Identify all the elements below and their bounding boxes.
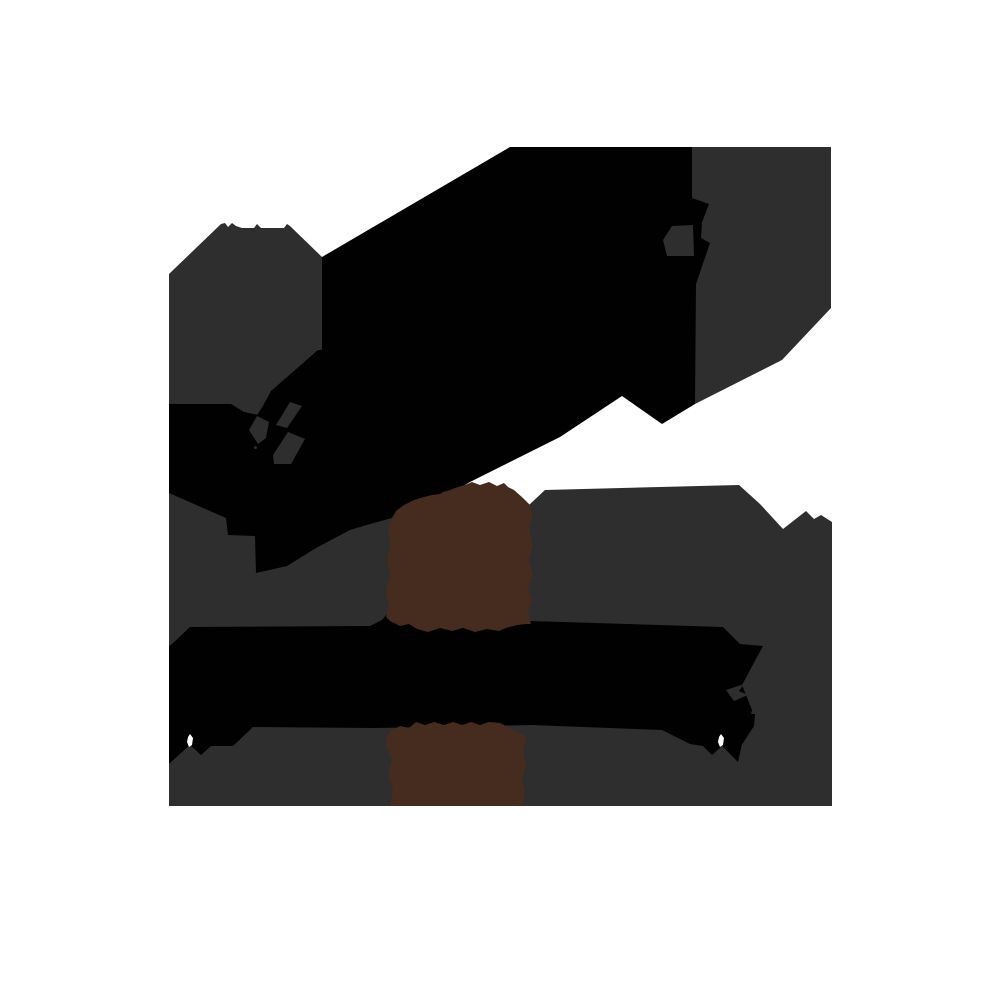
top-right gray face of beam (692, 147, 831, 404)
gray octagon (upper-left) (169, 223, 322, 415)
white speck left (187, 734, 193, 747)
bottom slab (gray body) (169, 485, 832, 806)
checker cell D2 (upper-right gray diamond) (276, 402, 302, 428)
white speck right (718, 734, 724, 747)
black band across slab (169, 614, 763, 763)
brown column upper segment (386, 482, 533, 632)
checker cell B (black diamond cut into octagon) (257, 391, 290, 426)
checker cell D3 (lower-right gray diamond) (273, 432, 305, 464)
brown column lower segment (386, 722, 527, 806)
gray arrow notch in black band right end (726, 684, 748, 701)
diagonal black beam (169, 147, 710, 573)
checker cell D1 (lower-left gray diamond) (249, 416, 269, 444)
small gray pentagon notch (right of beam) (663, 225, 694, 256)
checker dot (254, 446, 257, 449)
